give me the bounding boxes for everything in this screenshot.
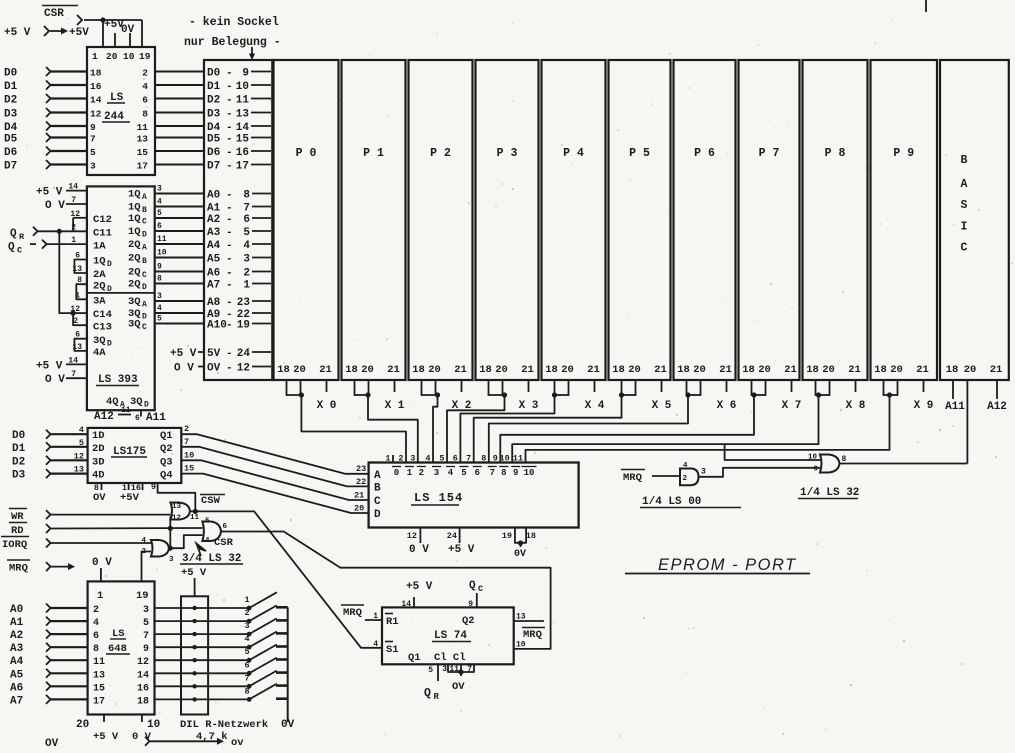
svg-text:D2: D2 (4, 95, 17, 107)
decoder U4 LS 154 (369, 463, 579, 528)
LS648 bottom pin 20 to +5 V (76, 715, 119, 744)
svg-text:3/4 LS 32: 3/4 LS 32 (182, 553, 241, 565)
svg-text:18: 18 (345, 364, 358, 376)
svg-text:X 0: X 0 (317, 400, 337, 412)
wire LS244 pin 2 to port D0 (142, 68, 205, 79)
wire A7 input to LS648 pin 17 (10, 695, 105, 708)
wire A3 input to LS648 pin 8 (10, 643, 99, 656)
wire LS175 Q4 pin 15 to LS154 input (181, 464, 368, 513)
LS175 pin 9 clock wire to CSW node (151, 482, 195, 511)
svg-text:Q: Q (8, 242, 15, 254)
svg-text:A1: A1 (10, 617, 24, 629)
wire LS648 pin 5 through R-network to switch 2 (143, 618, 249, 629)
svg-text:O V: O V (174, 363, 194, 375)
svg-text:OV: OV (207, 363, 221, 375)
svg-text:19: 19 (139, 51, 151, 62)
svg-text:24: 24 (237, 348, 251, 360)
wire LS648 pin 7 through R-network to switch 3 (143, 631, 249, 642)
svg-text:MRQ: MRQ (343, 607, 362, 619)
svg-text:A6: A6 (207, 268, 220, 280)
flip-flop U3 LS175 (88, 428, 182, 483)
wire A5 input to LS648 pin 13 (10, 669, 105, 682)
svg-text:P 9: P 9 (893, 147, 914, 160)
svg-text:D0: D0 (12, 430, 25, 442)
svg-text:-: - (226, 122, 233, 134)
port pin label A2 - 6 (207, 214, 271, 226)
svg-text:12: 12 (137, 657, 149, 668)
svg-text:X 3: X 3 (519, 400, 539, 412)
port pin label A8 - 23 (207, 297, 271, 309)
wire BASIC pin 18 stub to net A11 (952, 380, 954, 399)
EPROM socket box P 7 (739, 60, 800, 380)
svg-text:S1: S1 (386, 644, 399, 656)
svg-text:3: 3 (157, 292, 162, 301)
svg-text:18: 18 (742, 364, 755, 376)
svg-text:11: 11 (157, 235, 167, 244)
tick mark top right edge (925, 0, 927, 12)
wire LS244 pin 13 to port D5 (137, 134, 205, 145)
svg-text:6: 6 (223, 523, 228, 531)
svg-text:21: 21 (354, 491, 364, 501)
svg-text:D3: D3 (4, 109, 18, 121)
svg-text:R: R (434, 692, 440, 702)
port pin label D0 - 9 (207, 68, 271, 80)
port pin label A4 - 4 (207, 240, 271, 252)
svg-text:2Q: 2Q (128, 239, 141, 251)
port pin label D6 - 16 (207, 147, 271, 159)
svg-text:-: - (226, 109, 233, 121)
svg-text:A5: A5 (207, 254, 221, 266)
switch common 0V bus (281, 607, 295, 731)
switch S3 blade (244, 618, 287, 636)
svg-text:244: 244 (104, 111, 124, 123)
svg-text:A4: A4 (10, 656, 24, 668)
svg-text:+5 V: +5 V (36, 187, 63, 199)
svg-text:+5 V: +5 V (406, 581, 433, 593)
port pin label D7 - 17 (207, 161, 271, 173)
svg-text:21: 21 (387, 364, 400, 376)
label +5 V supply arrow top left (4, 26, 89, 39)
wire LS244 pin 4 to port D1 (142, 81, 205, 92)
svg-text:1: 1 (244, 595, 249, 605)
svg-text:X 5: X 5 (652, 400, 672, 412)
svg-text:19: 19 (502, 531, 512, 541)
counter U2 LS 393 (87, 186, 155, 410)
svg-text:18: 18 (526, 531, 536, 541)
svg-text:3: 3 (143, 605, 149, 616)
svg-text:Q1: Q1 (408, 652, 421, 664)
svg-text:12: 12 (70, 210, 80, 219)
or-gate CSR 3/4 LS32 (202, 518, 227, 546)
svg-text:4: 4 (373, 640, 378, 649)
wire P 6 pin 18/20 join to select net X6 (685, 380, 701, 398)
LS648 bottom pin 10 to 0 V (132, 715, 160, 744)
svg-text:-: - (226, 363, 233, 375)
wire P 3 pin 21 stub (528, 380, 530, 392)
wire CSW output to LS74 S1 (diagonal) (190, 509, 382, 648)
svg-text:4: 4 (93, 618, 99, 629)
svg-text:4: 4 (448, 468, 454, 478)
wire select net X9 to LS154 pin 11 (526, 395, 890, 463)
svg-text:3: 3 (244, 621, 249, 631)
wire P 9 pin 18/20 join to select net X9 (883, 380, 899, 398)
LS175 bottom pins 1 and 16 to +5V (120, 483, 143, 504)
label 3/4 LS 32 with pointer arrow (180, 543, 243, 565)
svg-text:C14: C14 (93, 309, 112, 321)
wire P 8 pin 21 stub (855, 380, 857, 392)
EPROM socket box P 5 (609, 60, 671, 380)
svg-text:D6: D6 (4, 147, 17, 159)
wire P 1 pin 21 stub (394, 380, 396, 392)
LS154 bottom pin 12 to 0 V (407, 528, 429, 557)
svg-text:20: 20 (822, 364, 835, 376)
svg-text:I: I (961, 221, 968, 234)
wire D1 input to LS175 pin 5 (12, 438, 88, 455)
EPROM socket box P 2 (409, 60, 473, 380)
svg-text:3Q: 3Q (93, 335, 106, 347)
svg-text:18: 18 (90, 68, 102, 79)
svg-text:7: 7 (243, 203, 250, 215)
svg-text:A10: A10 (207, 320, 227, 332)
svg-text:2: 2 (73, 317, 78, 326)
wire D6 input to LS244 pin 5 (4, 147, 96, 160)
svg-text:IORQ: IORQ (2, 539, 27, 551)
wire LS648 pin 16 through R-network to switch 7 (137, 683, 249, 694)
svg-text:10: 10 (123, 51, 135, 62)
wire select net X2 to LS154 pin 4 (433, 395, 438, 463)
svg-text:15: 15 (137, 147, 149, 158)
svg-text:1A: 1A (93, 240, 106, 252)
svg-text:A3: A3 (207, 227, 221, 239)
svg-text:21: 21 (319, 364, 332, 376)
svg-text:13: 13 (172, 503, 182, 511)
svg-text:1: 1 (71, 236, 76, 245)
LS393 pin 2 C11 stub (59, 223, 87, 232)
wire D0 input to LS175 pin 4 (12, 425, 88, 442)
svg-text:13: 13 (93, 670, 105, 681)
svg-text:6: 6 (244, 660, 249, 670)
svg-text:21: 21 (848, 364, 861, 376)
svg-text:3: 3 (701, 468, 706, 477)
svg-text:C: C (478, 584, 483, 594)
wire A6 input to LS648 pin 15 (10, 682, 105, 695)
svg-text:P 7: P 7 (759, 147, 780, 160)
svg-text:0: 0 (394, 468, 399, 478)
svg-text:6: 6 (135, 414, 140, 423)
svg-text:-: - (226, 297, 233, 309)
svg-text:15: 15 (93, 683, 105, 694)
svg-text:D: D (107, 285, 112, 294)
switch S1 blade (244, 592, 287, 610)
svg-text:11: 11 (93, 657, 105, 668)
port pin label A5 - 3 (207, 254, 271, 266)
wire D5 input to LS244 pin 7 (4, 133, 96, 146)
svg-text:+5 V: +5 V (36, 361, 63, 373)
svg-text:P 0: P 0 (296, 147, 317, 160)
svg-text:4: 4 (142, 81, 148, 92)
wire A1 input to LS648 pin 4 (10, 617, 99, 630)
wire D2 input to LS175 pin 12 (12, 451, 88, 468)
svg-text:13: 13 (137, 134, 149, 145)
wire QR down to C14 row (59, 231, 73, 313)
svg-text:-: - (226, 203, 233, 215)
wire LS393 3QA pin 3 to port A8 (128, 292, 205, 310)
svg-text:20: 20 (293, 364, 306, 376)
wire LS244 pin 6 to port D2 (142, 95, 205, 106)
LS244 supply bracket +5V/0V (103, 19, 142, 47)
LS175 bottom pin 8 to 0V (93, 483, 106, 504)
svg-text:P 1: P 1 (363, 147, 384, 160)
svg-text:CSR: CSR (214, 537, 234, 549)
svg-text:X 6: X 6 (717, 400, 737, 412)
wire +5 V to LS74 pin 14 (401, 581, 432, 609)
svg-text:R1: R1 (386, 616, 399, 628)
svg-text:1: 1 (92, 51, 98, 62)
buffer U1 LS 244 (87, 47, 155, 175)
svg-text:21: 21 (990, 364, 1003, 376)
svg-text:C: C (17, 246, 22, 256)
svg-text:0V: 0V (281, 719, 295, 731)
svg-text:OV: OV (93, 492, 106, 504)
svg-text:2: 2 (244, 608, 249, 618)
svg-text:5: 5 (157, 315, 162, 324)
svg-text:D: D (144, 401, 149, 410)
switch S5 blade (244, 645, 287, 663)
svg-text:19: 19 (136, 590, 149, 602)
svg-text:11: 11 (190, 514, 200, 522)
wire LS393 2QA pin 11 to port A4 (128, 235, 205, 253)
port pin label 0V - 12 (207, 363, 271, 375)
svg-text:12: 12 (70, 305, 80, 314)
svg-text:4D: 4D (92, 470, 105, 482)
svg-text:A0: A0 (10, 604, 23, 616)
svg-text:D: D (142, 231, 147, 240)
svg-text:18: 18 (612, 364, 625, 376)
svg-text:DIL R-Netzwerk: DIL R-Netzwerk (180, 719, 268, 731)
wire LS648 pin 12 through R-network to switch 5 (137, 657, 249, 668)
svg-text:11: 11 (236, 95, 250, 107)
wire A4 input to LS648 pin 11 (10, 656, 105, 669)
svg-text:D3: D3 (207, 109, 221, 121)
svg-text:-: - (226, 68, 233, 80)
svg-text:A2: A2 (207, 214, 220, 226)
svg-text:+5 V: +5 V (448, 544, 475, 556)
svg-text:A: A (142, 244, 147, 253)
svg-text:20: 20 (758, 364, 771, 376)
wire LS393 1QB pin 4 to port A1 (128, 198, 205, 216)
svg-text:12: 12 (90, 109, 102, 120)
wire D7 input to LS244 pin 3 (4, 160, 96, 173)
svg-text:D3: D3 (12, 470, 26, 482)
svg-text:4: 4 (157, 304, 162, 313)
svg-text:9: 9 (468, 600, 473, 609)
bottom 0V rail arrow (45, 737, 244, 750)
svg-text:-: - (226, 268, 233, 280)
wire A2 input to LS648 pin 6 (10, 630, 99, 643)
svg-text:6: 6 (93, 631, 99, 642)
port connector pin-name column box (204, 60, 272, 380)
svg-text:3: 3 (169, 556, 174, 564)
svg-text:12: 12 (172, 515, 182, 523)
svg-text:P 6: P 6 (694, 147, 715, 160)
svg-text:A7: A7 (207, 280, 220, 292)
svg-text:7: 7 (71, 370, 76, 379)
wire LS648 pin 3 through R-network to switch 1 (143, 605, 249, 616)
svg-text:5: 5 (90, 147, 96, 158)
LS154 output pin 1 stub (392, 455, 394, 463)
svg-text:18: 18 (277, 364, 290, 376)
svg-text:8: 8 (243, 190, 250, 202)
svg-text:MRQ: MRQ (623, 472, 642, 484)
port pin label D1 - 10 (207, 81, 271, 93)
svg-text:7: 7 (90, 134, 96, 145)
svg-text:-: - (226, 147, 233, 159)
svg-text:A3: A3 (10, 643, 24, 655)
input MRQ with label bottom left (7, 560, 75, 575)
svg-text:Q: Q (10, 228, 17, 240)
svg-text:24: 24 (447, 531, 457, 541)
input MRQ to LS00 gate (621, 470, 680, 485)
svg-text:C11: C11 (93, 228, 112, 240)
svg-text:0V: 0V (121, 24, 135, 36)
svg-text:5: 5 (79, 438, 84, 448)
wire select net X6 to LS154 pin 8 (489, 395, 688, 463)
label 1/4 LS 32 (798, 487, 859, 499)
svg-text:P 5: P 5 (629, 147, 650, 160)
EPROM socket box P 0 (274, 60, 339, 380)
svg-text:12: 12 (237, 363, 250, 375)
svg-text:10: 10 (147, 719, 160, 731)
svg-text:Q2: Q2 (462, 615, 475, 627)
svg-text:4: 4 (79, 425, 84, 435)
svg-text:21: 21 (784, 364, 797, 376)
svg-text:D2: D2 (207, 95, 220, 107)
svg-text:4: 4 (244, 634, 249, 644)
wire P 8 pin 18/20 join to select net X8 (815, 380, 831, 398)
svg-text:17: 17 (93, 696, 105, 707)
svg-text:10: 10 (236, 81, 249, 93)
svg-text:OV: OV (452, 681, 465, 693)
svg-text:13: 13 (516, 613, 526, 622)
svg-text:12: 12 (407, 531, 417, 541)
svg-text:8: 8 (244, 686, 249, 696)
svg-text:O V: O V (45, 200, 65, 212)
switch S2 blade (244, 605, 287, 623)
wire 0 V to LS393 pin 7 (bottom) (45, 370, 87, 386)
wire select net X1 to LS154 pin 3 (368, 395, 418, 463)
svg-text:A11: A11 (146, 412, 166, 424)
svg-text:ov: ov (231, 737, 244, 748)
wire 0 V to port 0V pin (174, 363, 205, 375)
svg-text:B: B (961, 154, 968, 167)
svg-text:-: - (226, 134, 233, 146)
svg-text:1: 1 (75, 291, 80, 300)
svg-text:1/4 LS 32: 1/4 LS 32 (800, 487, 859, 499)
svg-text:10: 10 (808, 454, 818, 462)
port pin label D4 - 14 (207, 122, 271, 134)
svg-text:8: 8 (142, 109, 148, 120)
svg-text:0V: 0V (514, 549, 526, 560)
svg-text:Q: Q (469, 580, 476, 592)
svg-text:D1: D1 (4, 81, 18, 93)
svg-text:X 4: X 4 (585, 400, 605, 412)
svg-text:+5 V: +5 V (170, 348, 197, 360)
svg-text:6: 6 (75, 331, 80, 340)
svg-text:3: 3 (243, 254, 250, 266)
LS393 3QD-4A feedback bracket (72, 331, 87, 352)
svg-text:6: 6 (157, 222, 162, 231)
port pin label A1 - 7 (207, 203, 271, 215)
transceiver U5 LS 648 (88, 581, 155, 714)
svg-text:20: 20 (76, 719, 89, 731)
svg-text:5V: 5V (207, 348, 221, 360)
LS74 pin 13 output MRQ label (514, 613, 545, 642)
svg-text:1: 1 (407, 468, 413, 478)
wire LS393 1QD pin 6 to port A3 (128, 222, 205, 240)
svg-text:CSW: CSW (201, 495, 221, 507)
svg-text:7: 7 (184, 437, 189, 447)
svg-text:7: 7 (143, 631, 149, 642)
wire P 1 pin 18/20 join to select net X1 (354, 380, 371, 398)
wire LS74 pin 5 Q1 to QR (424, 664, 440, 702)
svg-text:21: 21 (916, 364, 929, 376)
svg-text:X 1: X 1 (385, 400, 405, 412)
wire gate node to CSR input 4 (170, 535, 202, 548)
wire P 6 pin 21 stub (726, 380, 728, 392)
svg-text:23: 23 (237, 297, 251, 309)
port pin label D5 - 15 (207, 134, 271, 146)
wire gate node riser to CSW input 12 (169, 517, 171, 549)
input IORQ with label (1, 537, 151, 552)
svg-text:5: 5 (428, 666, 433, 675)
net label CSW (200, 495, 225, 508)
wire D4 input to LS244 pin 9 (4, 122, 96, 135)
svg-text:21: 21 (454, 364, 467, 376)
svg-text:C: C (142, 323, 147, 332)
wire LS244 pin 15 to port D6 (137, 147, 205, 158)
or-gate 1/4 LS 32 (808, 454, 847, 474)
wire CSR output to LS74 pin 10 (221, 532, 551, 649)
LS154 bottom pin 24 to +5 V (447, 528, 475, 557)
wire select net X8 to LS154 pin 10 (512, 395, 818, 463)
svg-text:9: 9 (151, 482, 156, 492)
wire LS648 pin 14 through R-network to switch 6 (137, 670, 249, 681)
input MRQ to LS74 R1 pin 1 (341, 605, 382, 621)
wire P 4 pin 18/20 join to select net X4 (552, 380, 570, 398)
svg-text:P 2: P 2 (430, 147, 451, 160)
svg-text:2: 2 (93, 605, 99, 616)
svg-text:2Q: 2Q (128, 253, 141, 265)
svg-text:17: 17 (236, 161, 249, 173)
svg-text:20: 20 (561, 364, 574, 376)
svg-text:-: - (226, 81, 233, 93)
svg-text:3: 3 (90, 161, 96, 172)
EPROM socket box P 4 (542, 60, 606, 380)
svg-text:X 7: X 7 (782, 400, 802, 412)
svg-text:11: 11 (137, 122, 149, 133)
wire +5 V to LS393 pin 14 (bottom) (36, 356, 87, 372)
svg-text:C: C (961, 242, 968, 255)
svg-text:5: 5 (205, 518, 210, 526)
svg-text:18: 18 (806, 364, 819, 376)
svg-text:-: - (226, 254, 233, 266)
svg-text:16: 16 (90, 81, 102, 92)
svg-text:3Q: 3Q (130, 396, 143, 408)
svg-text:A5: A5 (10, 669, 24, 681)
svg-text:21: 21 (719, 364, 732, 376)
svg-text:A1: A1 (207, 203, 221, 215)
nand-gate 1/4 LS 00 (680, 462, 706, 485)
